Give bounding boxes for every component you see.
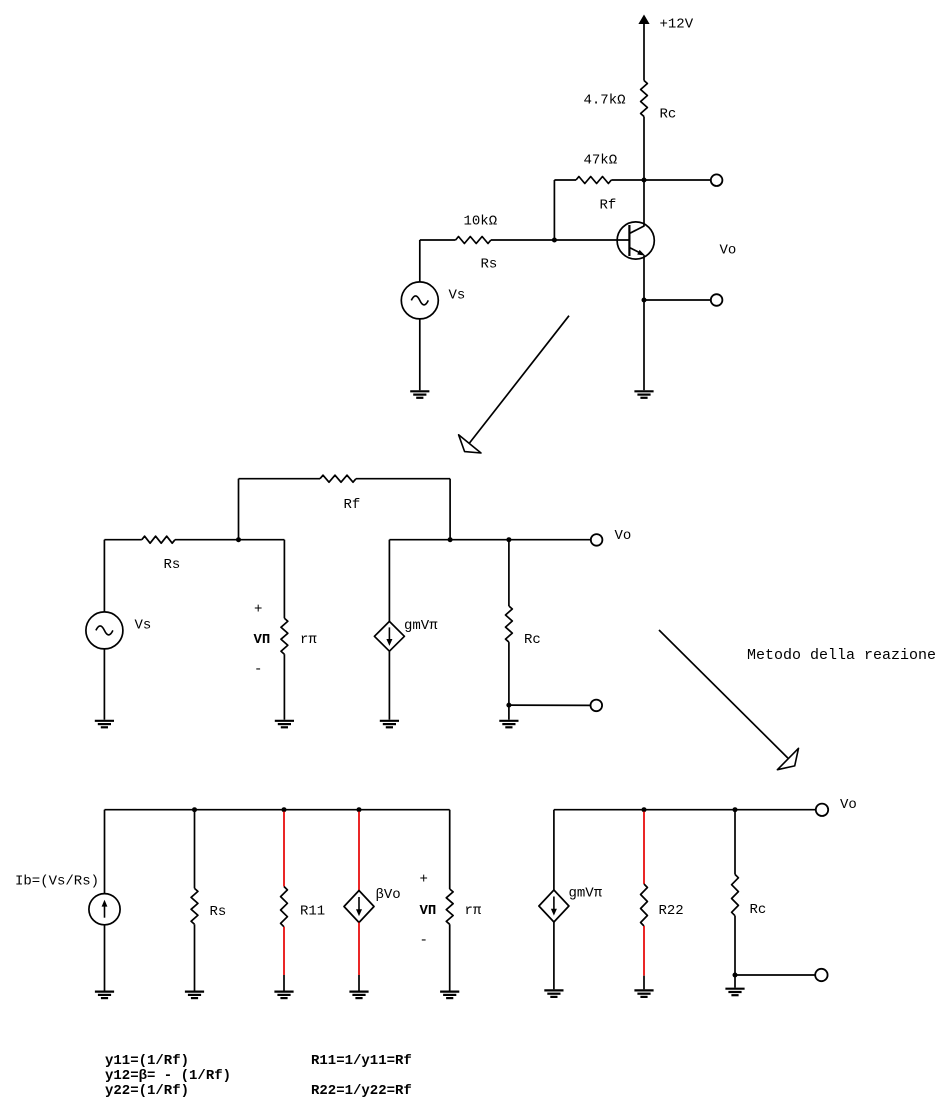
label rπ (small-signal) [300,632,317,648]
label 10kΩ [464,214,498,230]
wire output row (small-signal) [389,539,590,541]
terminal lower (output side) [815,969,827,981]
label 4.7kΩ [584,93,626,109]
wire to lower terminal (small-signal) [509,704,591,706]
svg-text:+: + [420,872,428,888]
svg-text:4.7kΩ: 4.7kΩ [584,93,626,109]
svg-text:Vo: Vo [840,797,857,813]
terminal Vo (output side) [816,804,828,816]
resistor Rc 4.7k (vertical) [641,81,648,117]
svg-text:Rs: Rs [210,904,227,920]
resistor Rc (small-signal, vertical) [506,540,513,705]
label Vπ (feedback model) [420,903,437,919]
svg-text:rπ: rπ [465,903,482,919]
node emitter/output [642,298,647,303]
svg-text:VΠ: VΠ [254,632,271,648]
ground (R11) [274,992,293,999]
label + (Vπ polarity) [254,602,262,618]
svg-text:47kΩ: 47kΩ [584,153,618,169]
resistor Rf 47k (horizontal) [554,177,644,184]
resistor rπ (small-signal, vertical) [281,540,288,720]
wire Rc to ground (output side) [734,975,736,988]
svg-text:rπ: rπ [300,632,317,648]
controlled source βVo (red leads) [344,812,374,991]
wire Vs to ground [419,319,421,390]
wire emitter to ground [643,300,645,390]
node base junction [552,238,557,243]
svg-text:y11=(1/Rf): y11=(1/Rf) [105,1053,189,1069]
current source Ib=(Vs/Rs) [89,810,120,991]
formula y22 [105,1083,189,1099]
svg-text:R22: R22 [659,903,684,919]
svg-text:Rs: Rs [164,557,181,573]
ground (Vs small-signal) [95,721,114,728]
resistor rπ (feedback model, vertical) [446,810,453,991]
transistor Q1 [617,222,654,259]
ground (R22) [634,990,653,997]
node Rf/output [448,537,453,542]
label Rs (top circuit) [481,257,498,273]
node Rc bottom (output side) [733,973,738,978]
wire node to output terminal [644,179,711,181]
wire Vs to ground (small-signal) [103,649,105,720]
wire emitter down [643,256,645,301]
label R11 [300,904,325,920]
svg-text:R11=1/y11=Rf: R11=1/y11=Rf [311,1053,412,1069]
node Rs top [192,807,197,812]
ground (Rc output side) [725,989,744,996]
ground (rπ feedback model) [440,992,459,999]
svg-text:Rc: Rc [524,632,541,648]
source Vs (top circuit) [401,282,438,319]
svg-text:R11: R11 [300,904,325,920]
wire Rf left vertical [238,479,240,540]
node R22 top [642,807,647,812]
node collector/feedback junction [642,178,647,183]
ground (βVo) [349,992,368,999]
terminal Vo (small-signal) [591,534,603,546]
label Vo (small-signal) [615,528,632,544]
arrow to small-signal model [459,316,569,453]
svg-text:Rs: Rs [481,257,498,273]
svg-text:+12V: +12V [660,17,694,33]
ground (gmVπ output side) [544,990,563,997]
arrow metodo della reazione [659,630,799,770]
resistor R11 (red leads, vertical) [281,812,288,991]
resistor Rf (small-signal, horizontal) [239,475,451,482]
formula y12 [105,1068,231,1084]
wire node to lower terminal [644,299,711,301]
label rπ (feedback model) [465,903,482,919]
wire top rail (feedback model input side) [105,809,450,811]
ground (Rc small-signal) [499,721,518,728]
label gmVπ (output side) [569,886,603,902]
svg-text:Ib=(Vs/Rs): Ib=(Vs/Rs) [15,874,99,890]
label Ib=(Vs/Rs) [15,874,99,890]
resistor Rs (feedback model, vertical) [191,810,198,991]
wire top rail (output side) [554,809,816,811]
resistor Rs 10k (horizontal) [420,237,555,244]
node Rc top (small-signal) [506,537,511,542]
svg-text:Metodo della reazione: Metodo della reazione [747,647,936,664]
terminal Vo upper (top circuit) [711,174,723,186]
controlled source gmVπ (small-signal) [374,540,404,720]
label Rs (small-signal) [164,557,181,573]
svg-text:Vo: Vo [615,528,632,544]
formula R22 [311,1083,412,1099]
formula R11 [311,1053,412,1069]
label - (Vπ feedback model) [420,933,428,949]
label + (Vπ feedback model) [420,872,428,888]
label Rc [660,107,677,123]
label Vs (small-signal) [135,618,152,634]
svg-text:Rf: Rf [344,497,361,513]
terminal Vo lower (top circuit) [711,294,723,306]
svg-text:Vs: Vs [135,618,152,634]
label Vs (top circuit) [449,288,466,304]
wire Vs branch down [103,540,105,612]
node R11 top [282,807,287,812]
wire base [554,239,629,241]
wire Vs top [419,240,421,282]
svg-text:y12=β= - (1/Rf): y12=β= - (1/Rf) [105,1068,231,1084]
ground (Rs feedback model) [185,992,204,999]
+12V supply arrow [638,15,649,81]
svg-text:-: - [420,933,428,949]
svg-text:Rc: Rc [660,107,677,123]
label Rc (small-signal) [524,632,541,648]
label Vo (output side) [840,797,857,813]
node input/feedback [236,537,241,542]
svg-text:Vs: Vs [449,288,466,304]
svg-text:VΠ: VΠ [420,903,437,919]
svg-text:y22=(1/Rf): y22=(1/Rf) [105,1083,189,1099]
label Vo (top circuit) [720,243,737,259]
wire Rf right vertical [449,479,451,540]
node Rc top (output side) [733,807,738,812]
label Rf [600,198,617,214]
svg-text:R22=1/y22=Rf: R22=1/y22=Rf [311,1083,412,1099]
svg-text:10kΩ: 10kΩ [464,214,498,230]
label - (Vπ polarity) [254,662,262,678]
source Vs (small-signal) [86,612,123,649]
label gmVπ (small-signal) [404,618,438,634]
ground (Ib source) [95,992,114,999]
label Rs (feedback model) [210,904,227,920]
wire to lower terminal (output side) [735,974,815,976]
ground (emitter) [634,391,653,398]
label Vπ (small-signal) [254,632,271,648]
svg-text:gmVπ: gmVπ [569,886,603,902]
label Rf (small-signal) [344,497,361,513]
svg-text:Rf: Rf [600,198,617,214]
label 47kΩ [584,153,618,169]
wire Rc to ground (small-signal) [508,705,510,720]
wire feedback left vertical [553,180,555,240]
label Metodo della reazione [747,647,936,664]
node βVo top [357,807,362,812]
label R22 [659,903,684,919]
ground (gmVπ small-signal) [380,721,399,728]
label βVo [376,887,401,903]
svg-text:gmVπ: gmVπ [404,618,438,634]
wire Rc bottom to collector node [643,117,645,181]
label +12V [660,17,694,33]
resistor R22 (red leads, vertical) [641,812,648,990]
svg-text:Vo: Vo [720,243,737,259]
ground (Vs top circuit) [410,391,429,398]
svg-text:-: - [254,662,262,678]
svg-text:Rc: Rc [750,902,767,918]
formula y11 [105,1053,189,1069]
terminal lower (small-signal) [591,700,603,712]
resistor Rc (output side, vertical) [732,810,739,975]
wire collector [643,180,645,226]
resistor Rs (small-signal, horizontal) [104,536,284,543]
label Rc (output side) [750,902,767,918]
node Rc bottom (small-signal) [506,703,511,708]
svg-text:βVo: βVo [376,887,401,903]
svg-text:+: + [254,602,262,618]
ground (rπ small-signal) [275,721,294,728]
controlled source gmVπ (output side) [539,810,569,990]
